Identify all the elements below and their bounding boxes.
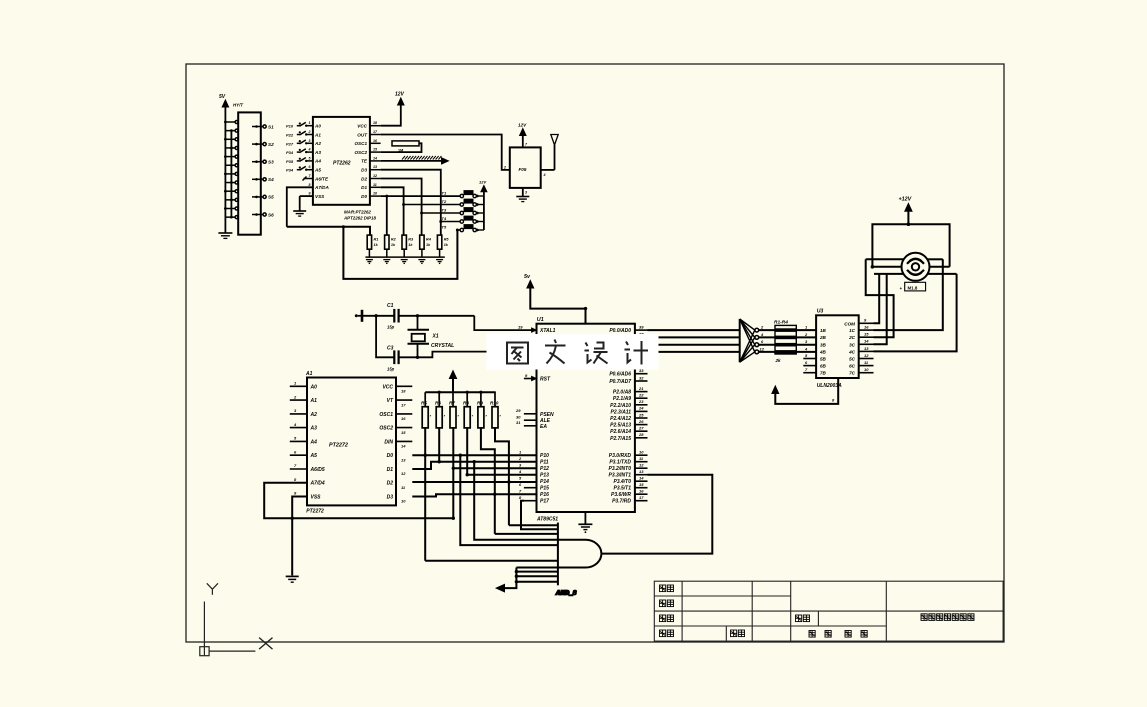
svg-text:D2: D2 xyxy=(387,481,394,487)
svg-text:P2.0/A8: P2.0/A8 xyxy=(613,390,631,396)
svg-text:12: 12 xyxy=(401,471,406,476)
svg-text:15p: 15p xyxy=(387,325,395,330)
svg-text:12: 12 xyxy=(760,346,765,351)
svg-text:10: 10 xyxy=(639,450,644,455)
svg-text:P16: P16 xyxy=(540,492,549,498)
svg-text:1C: 1C xyxy=(849,328,856,333)
svg-text:P3.7/RD: P3.7/RD xyxy=(612,499,631,505)
svg-text:A1: A1 xyxy=(310,398,318,404)
svg-text:R5: R5 xyxy=(421,400,427,405)
svg-text:16: 16 xyxy=(864,325,869,330)
svg-text:A3: A3 xyxy=(314,150,321,155)
svg-text:14: 14 xyxy=(639,476,644,481)
svg-text:R8: R8 xyxy=(463,400,469,405)
svg-text:27: 27 xyxy=(638,426,644,431)
svg-text:RST: RST xyxy=(540,377,551,383)
svg-text:31: 31 xyxy=(516,420,521,425)
svg-text:PSEN: PSEN xyxy=(540,412,554,418)
svg-text:26: 26 xyxy=(638,419,644,424)
svg-text:P2.5/A13: P2.5/A13 xyxy=(610,423,631,429)
svg-text:5B: 5B xyxy=(820,357,827,362)
svg-text:S6: S6 xyxy=(268,212,274,217)
svg-text:5V: 5V xyxy=(219,94,226,100)
svg-text:A2: A2 xyxy=(314,141,321,146)
svg-text:P34: P34 xyxy=(286,168,294,173)
svg-text:P3.6/WR: P3.6/WR xyxy=(611,492,631,498)
svg-text:XTAL1: XTAL1 xyxy=(539,328,556,334)
svg-text:4C: 4C xyxy=(848,349,856,354)
svg-text:P14: P14 xyxy=(540,479,549,485)
svg-text:S1: S1 xyxy=(268,124,274,129)
svg-text:A5: A5 xyxy=(314,168,321,173)
svg-text:23: 23 xyxy=(638,399,644,404)
svg-text:T4: T4 xyxy=(442,216,447,221)
svg-text:D3: D3 xyxy=(361,168,367,173)
svg-text:D3: D3 xyxy=(387,495,394,501)
svg-text:2: 2 xyxy=(308,130,311,134)
svg-text:COM: COM xyxy=(844,321,855,326)
svg-text:7B: 7B xyxy=(820,371,827,376)
svg-text:14: 14 xyxy=(864,339,869,344)
svg-text:2B: 2B xyxy=(819,335,827,340)
svg-text:12: 12 xyxy=(864,353,869,358)
svg-text:2k: 2k xyxy=(775,358,782,363)
svg-text:D1: D1 xyxy=(361,185,367,190)
svg-text:21: 21 xyxy=(638,386,644,391)
svg-text:R10: R10 xyxy=(490,400,499,405)
svg-text:HY/T: HY/T xyxy=(233,103,243,108)
svg-text:VSS: VSS xyxy=(311,495,322,501)
svg-text:DIN: DIN xyxy=(384,439,393,445)
svg-text:AT89C51: AT89C51 xyxy=(536,517,558,523)
svg-text:EA: EA xyxy=(540,424,547,430)
svg-text:M1.8: M1.8 xyxy=(908,286,918,291)
svg-text:VCC: VCC xyxy=(382,384,393,390)
svg-text:CRYSTAL: CRYSTAL xyxy=(431,343,454,349)
svg-text:P27: P27 xyxy=(286,141,294,146)
svg-text:P2.2/A10: P2.2/A10 xyxy=(610,403,631,409)
svg-text:A0: A0 xyxy=(314,124,321,129)
svg-text:D0: D0 xyxy=(361,194,367,199)
svg-text:MAR:PT2262: MAR:PT2262 xyxy=(344,210,371,215)
svg-text:P3.0/RXD: P3.0/RXD xyxy=(609,453,632,459)
svg-text:A6/D5: A6/D5 xyxy=(310,467,325,473)
svg-text:14: 14 xyxy=(401,444,406,449)
svg-text:R7: R7 xyxy=(449,400,455,405)
svg-text:A3: A3 xyxy=(310,426,318,432)
svg-text:3: 3 xyxy=(309,139,311,143)
svg-text:18: 18 xyxy=(401,389,406,394)
svg-text:1: 1 xyxy=(309,121,311,125)
svg-text:13: 13 xyxy=(373,165,377,169)
svg-text:S5: S5 xyxy=(268,195,274,200)
svg-text:R9: R9 xyxy=(477,400,483,405)
svg-text:12: 12 xyxy=(373,174,377,178)
svg-text:30: 30 xyxy=(516,415,521,420)
svg-text:13: 13 xyxy=(639,469,644,474)
svg-text:C3: C3 xyxy=(387,345,394,351)
svg-text:P3.4/T0: P3.4/T0 xyxy=(613,479,631,485)
svg-text:17: 17 xyxy=(639,495,644,500)
svg-text:12V: 12V xyxy=(518,123,527,128)
svg-text:VCC: VCC xyxy=(357,124,367,129)
svg-text:2C: 2C xyxy=(848,335,856,340)
svg-text:OSC2: OSC2 xyxy=(379,426,393,432)
svg-text:P10: P10 xyxy=(540,453,549,459)
svg-text:T1: T1 xyxy=(442,191,447,196)
svg-text:18: 18 xyxy=(373,121,377,125)
svg-text:A4: A4 xyxy=(314,159,321,164)
svg-text:P2.7/A15: P2.7/A15 xyxy=(610,436,631,442)
svg-text:P2.6/A14: P2.6/A14 xyxy=(610,429,631,435)
svg-text:P3.2/INT0: P3.2/INT0 xyxy=(608,466,631,472)
svg-text:1M: 1M xyxy=(398,149,403,153)
svg-text:6C: 6C xyxy=(849,364,856,369)
svg-text:P34: P34 xyxy=(286,150,294,155)
svg-text:P13: P13 xyxy=(540,473,549,479)
svg-text:TE: TE xyxy=(361,159,368,164)
svg-text:P15: P15 xyxy=(540,486,549,492)
svg-text:R1-R4: R1-R4 xyxy=(774,319,788,325)
svg-text:32: 32 xyxy=(639,375,644,380)
svg-text:A7/D4: A7/D4 xyxy=(310,481,325,487)
svg-text:A1: A1 xyxy=(305,371,313,377)
svg-text:15: 15 xyxy=(401,430,406,435)
svg-text:P17: P17 xyxy=(540,499,549,505)
svg-text:OSC1: OSC1 xyxy=(354,141,367,146)
svg-text:17: 17 xyxy=(401,402,406,407)
svg-text:3C: 3C xyxy=(849,342,856,347)
svg-text:OSC1: OSC1 xyxy=(379,412,393,418)
svg-text:22: 22 xyxy=(638,393,644,398)
svg-text:S2: S2 xyxy=(268,142,274,147)
svg-text:U3: U3 xyxy=(817,308,824,314)
svg-text:4: 4 xyxy=(308,148,311,152)
svg-text:F05: F05 xyxy=(519,167,527,172)
svg-text:ULN2003A: ULN2003A xyxy=(817,383,842,389)
svg-text:12V: 12V xyxy=(395,92,405,98)
svg-text:39: 39 xyxy=(639,324,644,329)
svg-text:9: 9 xyxy=(309,192,311,196)
svg-text:C1: C1 xyxy=(387,303,394,309)
svg-text:D2: D2 xyxy=(361,176,367,181)
svg-text:P0.7/AD7: P0.7/AD7 xyxy=(609,379,631,385)
svg-text:10: 10 xyxy=(864,367,869,372)
svg-text:+: + xyxy=(900,286,903,291)
svg-text:+12V: +12V xyxy=(899,197,912,203)
svg-text:8: 8 xyxy=(309,183,311,187)
svg-text:3: 3 xyxy=(525,191,527,195)
svg-text:P22: P22 xyxy=(286,133,294,138)
svg-text:T2: T2 xyxy=(442,199,447,204)
svg-text:PT2262: PT2262 xyxy=(333,161,351,167)
svg-text:19: 19 xyxy=(518,324,523,329)
svg-text:11: 11 xyxy=(373,183,377,187)
svg-text:AND_8: AND_8 xyxy=(555,591,577,597)
svg-text:13: 13 xyxy=(401,457,406,462)
svg-text:4: 4 xyxy=(543,173,546,177)
svg-text:15: 15 xyxy=(864,332,869,337)
svg-text:25: 25 xyxy=(638,412,644,417)
svg-text:2: 2 xyxy=(503,166,506,170)
svg-text:X1: X1 xyxy=(432,334,439,340)
svg-text:P10: P10 xyxy=(286,124,294,129)
svg-text:P2.4/A12: P2.4/A12 xyxy=(610,416,631,422)
svg-text:P3.3/INT1: P3.3/INT1 xyxy=(608,473,631,479)
svg-text:T3: T3 xyxy=(442,208,447,213)
svg-text:12: 12 xyxy=(639,463,644,468)
svg-text:4B: 4B xyxy=(819,349,827,354)
svg-text:12V: 12V xyxy=(479,180,486,185)
svg-text:R6: R6 xyxy=(435,400,441,405)
svg-text:15p: 15p xyxy=(387,367,395,372)
svg-text:A2: A2 xyxy=(310,412,318,418)
svg-text:VSS: VSS xyxy=(315,194,325,199)
svg-text:24: 24 xyxy=(638,406,644,411)
svg-text:16: 16 xyxy=(639,489,644,494)
svg-text:A6/TE: A6/TE xyxy=(314,176,329,181)
svg-text:S3: S3 xyxy=(268,160,274,165)
svg-text:1B: 1B xyxy=(820,328,827,333)
svg-text:28: 28 xyxy=(638,432,644,437)
svg-text:R1: R1 xyxy=(374,238,379,242)
svg-text:A5: A5 xyxy=(310,453,318,459)
svg-text:6B: 6B xyxy=(820,364,827,369)
svg-text:P11: P11 xyxy=(540,460,549,466)
svg-text:OUT: OUT xyxy=(357,132,368,137)
svg-text:T5: T5 xyxy=(442,225,447,230)
svg-text:P2.3/A11: P2.3/A11 xyxy=(611,409,632,415)
svg-text:D1: D1 xyxy=(387,467,394,473)
svg-text:A0: A0 xyxy=(310,384,318,390)
svg-text:P3.5/T1: P3.5/T1 xyxy=(613,486,631,492)
svg-text:A1: A1 xyxy=(314,132,321,137)
svg-text:5v: 5v xyxy=(524,274,531,280)
svg-text:VT: VT xyxy=(387,398,394,404)
svg-text:15: 15 xyxy=(639,482,644,487)
svg-text:10: 10 xyxy=(401,499,406,504)
svg-text:A4: A4 xyxy=(310,439,318,445)
svg-text:P35: P35 xyxy=(286,159,294,164)
svg-text:10: 10 xyxy=(373,192,377,196)
svg-text:P3.1/TXD: P3.1/TXD xyxy=(609,460,631,466)
svg-text:14: 14 xyxy=(373,156,377,160)
svg-text:16: 16 xyxy=(401,416,406,421)
svg-text:A7/DA: A7/DA xyxy=(314,185,329,190)
svg-text:P12: P12 xyxy=(540,466,549,472)
svg-text:7C: 7C xyxy=(849,371,856,376)
svg-text:OSC2: OSC2 xyxy=(354,150,367,155)
svg-text:S4: S4 xyxy=(268,177,274,182)
svg-text:U1: U1 xyxy=(537,317,544,323)
svg-text:3B: 3B xyxy=(820,342,827,347)
svg-text:PT2272: PT2272 xyxy=(329,443,348,449)
svg-text:D0: D0 xyxy=(387,453,394,459)
svg-text:APT2262 DIP18: APT2262 DIP18 xyxy=(343,216,377,221)
svg-text:P2.1/A9: P2.1/A9 xyxy=(613,396,631,402)
svg-text:P0.6/AD6: P0.6/AD6 xyxy=(609,372,631,378)
svg-text:29: 29 xyxy=(515,408,521,413)
svg-text:P0.0/AD0: P0.0/AD0 xyxy=(609,328,631,334)
svg-text:13: 13 xyxy=(864,346,869,351)
svg-text:PT2272: PT2272 xyxy=(306,509,324,515)
svg-text:5C: 5C xyxy=(849,357,856,362)
